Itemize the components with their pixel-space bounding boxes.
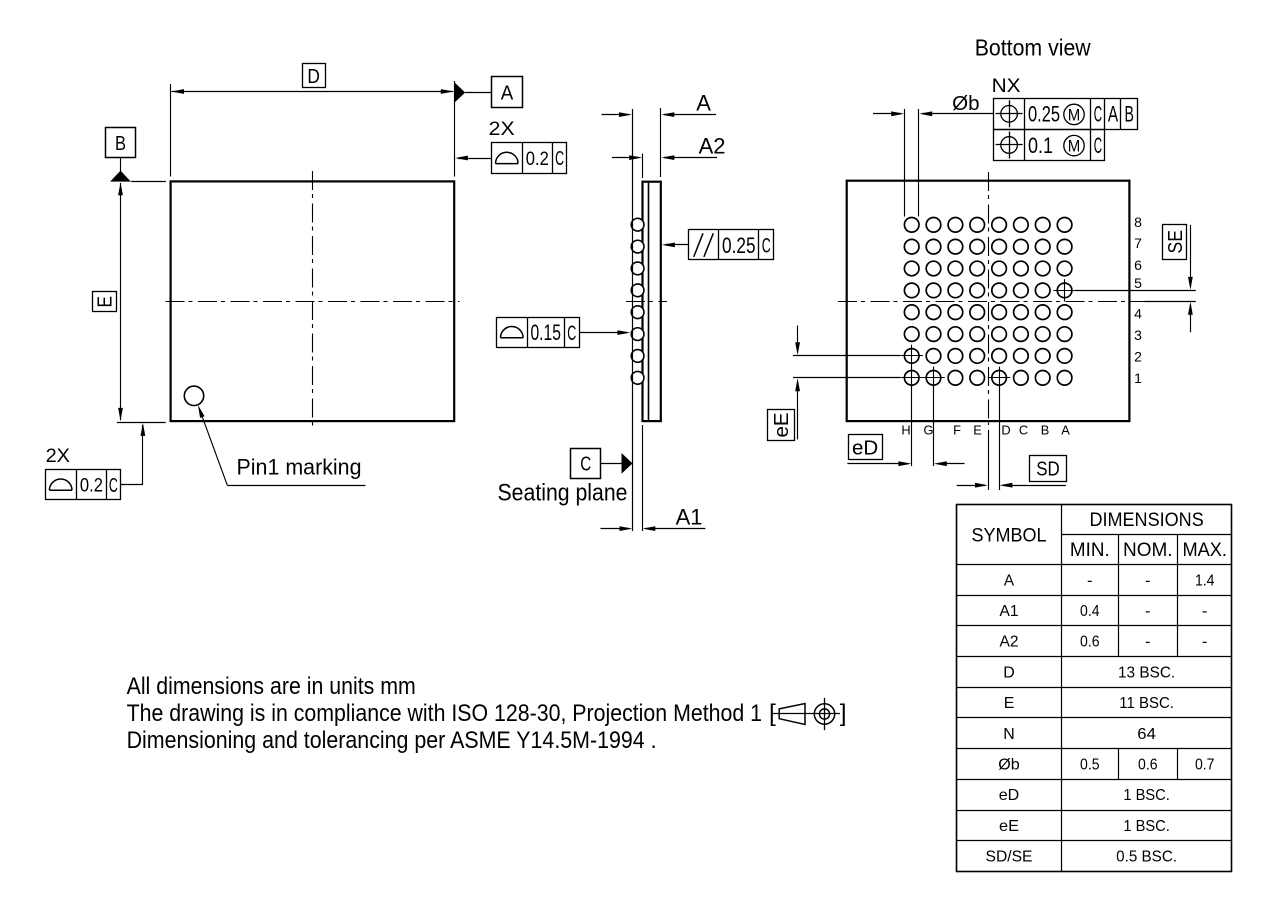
svg-text:A: A [501,82,514,105]
svg-text:-: - [1087,572,1093,589]
svg-text:4: 4 [1134,305,1142,321]
svg-text:64: 64 [1137,726,1156,743]
datum B stem [120,158,122,172]
bottom view vertical centerline [988,172,990,425]
svg-text:A2: A2 [699,133,726,158]
SD dimension line [957,485,985,487]
svg-text:A2: A2 [1000,634,1019,651]
svg-text:C: C [762,235,771,258]
eD dimension line [847,463,908,465]
dimension A2 line [612,157,639,159]
svg-text:MAX.: MAX. [1182,539,1227,561]
profile tolerance frame top right [492,143,567,174]
position tolerance frame row 2 [994,130,1105,161]
dimension D extension line left [170,84,172,177]
bottom view body outline [847,181,1130,421]
top edge extension line for datum B [131,181,166,183]
dimension D extension line right [454,81,456,177]
pin1 leader line [200,409,228,485]
svg-text:0.7: 0.7 [1195,757,1215,774]
svg-text:NX: NX [992,75,1021,97]
svg-text:5: 5 [1134,275,1142,291]
svg-text:M: M [1068,137,1081,156]
bottom view vertical centerline extension for SD [988,430,990,490]
svg-text:0.1: 0.1 [1028,133,1053,158]
side view solder balls [631,218,644,231]
svg-text:C: C [567,322,576,345]
arrow from top right frame [458,158,491,160]
svg-text:SYMBOL: SYMBOL [972,524,1047,546]
datum B triangle [110,171,131,182]
svg-text:H: H [901,422,910,437]
svg-text:A1: A1 [676,505,703,530]
crosshair marked balls H2 H1 G1 D1 A5 [901,355,923,357]
SE label box [1163,225,1187,260]
datum B box [106,128,136,158]
svg-text:F: F [953,422,961,437]
datum C leader [601,463,622,465]
svg-text:0.25: 0.25 [722,233,756,258]
svg-text:C: C [1094,133,1102,158]
datum A leader [465,92,491,94]
svg-text:1.4: 1.4 [1195,572,1215,589]
extension line body left edge top [642,154,644,179]
svg-text:A: A [1108,102,1119,127]
profile tolerance frame side view [497,318,580,348]
svg-text:0.5: 0.5 [1080,757,1100,774]
svg-text:Øb: Øb [952,93,979,115]
svg-text:0.2: 0.2 [526,148,549,170]
svg-text:1 BSC.: 1 BSC. [1123,818,1170,835]
dimension D line [172,91,454,93]
side view horizontal centerline [626,301,667,303]
datum C box [571,449,601,479]
leader from bottom left frame [120,484,143,486]
svg-text:-: - [1145,572,1151,589]
dimension E label box [93,292,117,312]
svg-text:E: E [973,422,982,437]
svg-text:eD: eD [852,436,878,459]
ball diameter extension lines [904,109,906,217]
svg-text:N: N [1003,726,1015,743]
svg-text:E: E [1004,695,1015,712]
top view package body outline [171,181,455,421]
top view vertical centerline [312,171,314,431]
svg-text:2X: 2X [46,446,71,467]
bottom view horizontal centerline [838,301,1145,303]
extension line body right edge [660,108,662,177]
svg-text:11 BSC.: 11 BSC. [1119,695,1174,712]
svg-text:A1: A1 [1000,603,1019,620]
svg-text:0.4: 0.4 [1080,603,1100,620]
svg-text:C: C [1019,422,1028,437]
svg-text:D: D [1003,665,1015,682]
svg-text:0.15: 0.15 [530,320,561,345]
svg-text:G: G [924,422,934,437]
svg-text:Bottom view: Bottom view [975,34,1092,60]
eD extension lines [911,386,913,467]
svg-text:Øb: Øb [998,757,1020,774]
svg-text:13 BSC.: 13 BSC. [1118,665,1175,682]
svg-text:1 BSC.: 1 BSC. [1123,787,1170,804]
svg-text:]: ] [840,700,847,727]
svg-text:0.5 BSC.: 0.5 BSC. [1116,849,1177,866]
svg-text:C: C [580,453,591,476]
svg-text:SE: SE [1164,230,1187,254]
SD extension line ball column D [999,386,1001,491]
extension line body left edge bottom [642,425,644,531]
svg-text:A: A [1004,572,1015,589]
datum C triangle [622,453,633,474]
svg-text:All dimensions are in units mm: All dimensions are in units mm [127,673,416,700]
dimension A line [602,114,630,116]
svg-text:3: 3 [1134,327,1142,343]
svg-text:B: B [1041,422,1050,437]
arrow from parallelism frame [665,244,688,246]
datum A triangle [454,82,465,103]
svg-text:2: 2 [1134,348,1142,364]
svg-text:D: D [307,65,320,88]
position tolerance frame row 1 [994,99,1138,130]
svg-text:NOM.: NOM. [1123,539,1173,561]
svg-text:MIN.: MIN. [1070,539,1110,561]
svg-text:C: C [109,475,118,497]
svg-text:B: B [1125,102,1134,127]
svg-text:DIMENSIONS: DIMENSIONS [1089,509,1203,531]
side view substrate line [648,183,650,420]
svg-text:A: A [696,90,711,115]
arrow from profile frame side view [579,332,627,334]
eD label box [849,435,883,460]
SD label box [1030,456,1067,482]
pin1 marking circle [184,386,203,405]
svg-text:-: - [1145,634,1151,651]
svg-text:M: M [1068,106,1081,125]
SE reference line from ball A5 [1076,290,1196,292]
dimension Ob line [873,113,901,115]
eE dimension arrows [797,326,799,353]
svg-text:C: C [1094,102,1102,127]
eE reference lines [793,355,900,357]
svg-text:0.2: 0.2 [80,475,103,497]
side view body outline [643,182,661,421]
svg-text:0.6: 0.6 [1138,757,1158,774]
svg-text:C: C [555,148,564,170]
svg-text:-: - [1202,634,1208,651]
svg-text:eE: eE [770,412,793,437]
svg-text:SD: SD [1036,458,1060,481]
top view horizontal centerline [166,301,460,303]
svg-text:D: D [1001,422,1010,437]
profile tolerance frame bottom left [46,470,121,500]
svg-text:SD/SE: SD/SE [986,849,1033,866]
dimension E line [120,183,122,420]
parallelism tolerance frame [689,230,774,260]
svg-text:0.25: 0.25 [1028,102,1060,127]
seating plane line [632,109,634,531]
svg-text:0.6: 0.6 [1080,634,1100,651]
svg-text:-: - [1145,603,1151,620]
datum A box [492,77,523,108]
solder ball grid 8x8 [904,218,919,233]
svg-text:eE: eE [999,818,1019,835]
projection method symbol [773,713,840,715]
svg-text:Pin1 marking: Pin1 marking [237,455,362,480]
SE reference line centerline extension [1145,301,1196,303]
dimension table grid [957,505,1232,872]
svg-text:2X: 2X [489,119,515,140]
svg-text:Dimensioning and tolerancing p: Dimensioning and tolerancing per ASME Y1… [127,727,657,754]
svg-text:1: 1 [1134,370,1142,386]
svg-text:7: 7 [1134,235,1142,251]
bottom edge extension line [117,422,166,424]
dimension D label box [303,64,326,88]
svg-text:B: B [115,132,126,155]
svg-text:The drawing is in compliance w: The drawing is in compliance with ISO 12… [127,700,762,727]
svg-text:Seating plane: Seating plane [498,480,628,507]
svg-text:8: 8 [1134,214,1142,230]
svg-text:eD: eD [999,787,1020,804]
svg-text:-: - [1202,603,1208,620]
svg-text:A: A [1061,422,1070,437]
SE dimension arrows [1190,225,1192,287]
svg-text:6: 6 [1134,257,1142,273]
eE label box [768,410,795,441]
dimension A1 line [601,528,630,530]
svg-text:E: E [94,296,117,308]
